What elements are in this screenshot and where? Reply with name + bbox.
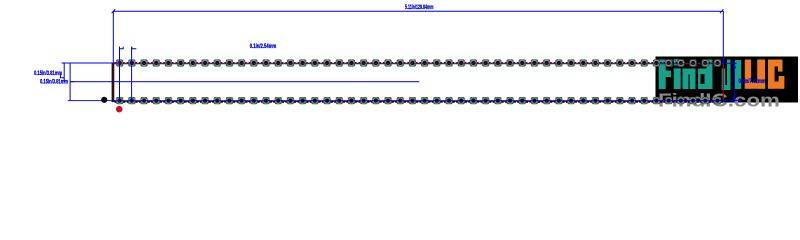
outline top edge (dark red under row)	[114, 63, 724, 64]
logo letter d (teal)	[698, 60, 713, 90]
logo letter J (teal)	[722, 60, 731, 91]
logo letter C (orange)	[768, 60, 784, 89]
bottom row blue line (over pads)	[68, 100, 737, 101]
mounting hole black dot	[101, 97, 107, 103]
dimension: left row-to-row	[70, 63, 74, 100]
centerline between rows	[70, 81, 419, 82]
dimension: overall width (top)	[112, 9, 724, 63]
logo letter n (teal)	[683, 69, 696, 90]
watermark logo black box	[656, 57, 799, 103]
bottom row black dashed outline	[114, 101, 723, 103]
svg-text:0.1in/2.54mm: 0.1in/2.54mm	[250, 43, 277, 50]
svg-text:0.3in/7.62mm: 0.3in/7.62mm	[739, 78, 766, 85]
outline left edge (black + dark red)	[112, 63, 115, 103]
top row purple line (over pads)	[114, 62, 723, 65]
dimension: left row-to-center	[60, 63, 116, 82]
pad rows (50 pads x 2, via pattern)	[116, 55, 722, 108]
pin 1 red dot	[116, 106, 123, 113]
dimension: pitch verticals (pads 1-2)	[120, 47, 137, 101]
logo letter i (teal)	[674, 59, 681, 89]
svg-text:0.15in/3.81mm: 0.15in/3.81mm	[40, 78, 68, 85]
logo letter F (teal)	[659, 60, 673, 90]
top row black dashed outline	[114, 62, 723, 64]
outline bottom edge (dark red)	[114, 101, 724, 102]
top-left red tick (pin row start)	[114, 62, 120, 63]
svg-text:5.11in/129.84mm: 5.11in/129.84mm	[405, 4, 434, 11]
logo narrow teal bar	[735, 60, 741, 89]
svg-text:0.15in/3.81mm: 0.15in/3.81mm	[34, 70, 62, 77]
outline right edge (dark red)	[723, 63, 724, 103]
logo letter U (orange)	[745, 60, 765, 89]
dimension: right row spacing	[718, 63, 742, 100]
